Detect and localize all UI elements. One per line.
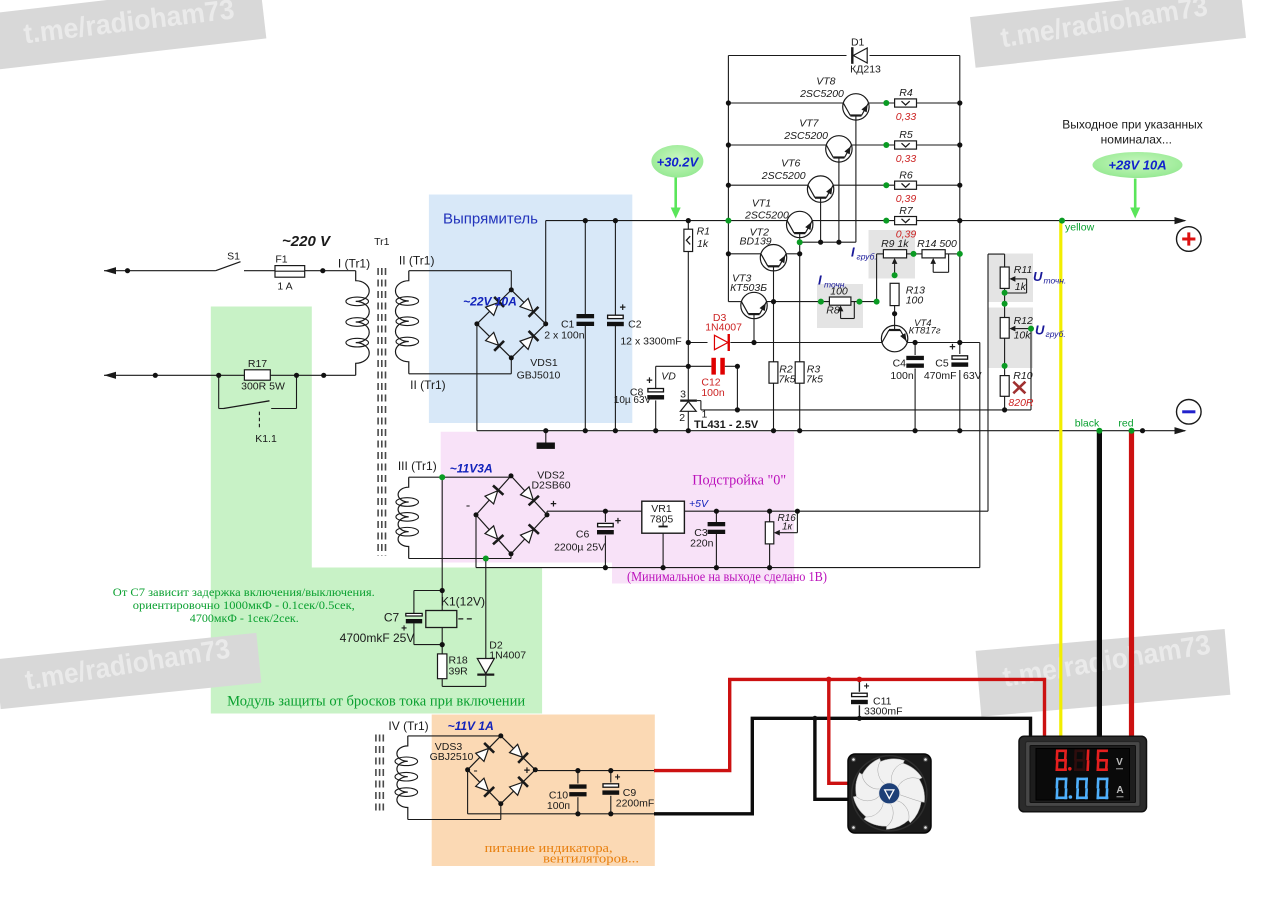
- svg-text:1N4007: 1N4007: [489, 650, 526, 662]
- svg-text:0,39: 0,39: [896, 193, 917, 205]
- region: protection module (green): [211, 307, 542, 714]
- svg-text:300R 5W: 300R 5W: [241, 381, 285, 393]
- svg-text:+: +: [615, 516, 621, 528]
- svg-text:4700mkF 25V: 4700mkF 25V: [340, 631, 415, 645]
- svg-text:(Минимальное на выходе сделано: (Минимальное на выходе сделано 1В): [627, 569, 827, 584]
- wire C12 row: [656, 365, 712, 367]
- svg-text:3300mF: 3300mF: [864, 706, 903, 718]
- svg-text:груб.: груб.: [857, 252, 877, 262]
- svg-text:2 x 100n: 2 x 100n: [544, 330, 584, 342]
- wire VDS3 - drop: [467, 770, 469, 814]
- svg-text:C2: C2: [628, 319, 642, 331]
- terminal minus: [1177, 400, 1202, 425]
- svg-text:VD: VD: [661, 371, 676, 383]
- potentiometer R14 500: [922, 250, 945, 258]
- highlight pad R11: [988, 254, 1033, 303]
- bridge diode upper-left: [485, 297, 504, 316]
- meter digits amps 0.00: [1056, 778, 1068, 781]
- wire D3 cathode to VT4: [730, 342, 882, 344]
- svg-text:II (Tr1): II (Tr1): [399, 254, 435, 268]
- svg-text:Выходное при указанных: Выходное при указанных: [1062, 118, 1203, 132]
- svg-text:+5V: +5V: [689, 498, 709, 510]
- wire +5V rail: [684, 510, 988, 512]
- svg-text:4700мкФ - 1сек/2сек.: 4700мкФ - 1сек/2сек.: [190, 613, 299, 625]
- relay coil K1: [426, 611, 457, 628]
- capacitor C3: [715, 511, 717, 522]
- diode D2 1N4007: [485, 676, 487, 687]
- ground symbol: [545, 431, 547, 443]
- svg-text:3: 3: [680, 389, 686, 401]
- svg-text:VT8: VT8: [816, 76, 835, 88]
- wire R9-R14: [907, 253, 922, 255]
- svg-text:100: 100: [906, 295, 924, 307]
- wire fan red feed: [829, 679, 850, 783]
- arrow +28V: [1134, 179, 1137, 210]
- svg-text:R11: R11: [1014, 264, 1032, 276]
- svg-text:220n: 220n: [690, 538, 714, 550]
- svg-text:100n: 100n: [701, 387, 725, 399]
- svg-text:R10: R10: [1013, 370, 1032, 382]
- bridge diode lower-left: [485, 332, 504, 351]
- wire R8 right to R9 drop: [851, 301, 877, 303]
- resistor R6: [895, 181, 917, 189]
- wire 7805 common rail: [476, 567, 980, 569]
- crossed-out mark on R10: [1013, 382, 1025, 394]
- resistor R18 39R: [438, 654, 447, 679]
- svg-text:GBJ2510: GBJ2510: [430, 751, 474, 763]
- capacitor C2: [614, 221, 616, 315]
- wire VT3 collector: [728, 301, 741, 303]
- capacitor C10: [577, 771, 579, 784]
- highlight pad R9: [869, 230, 916, 279]
- svg-text:R5: R5: [899, 129, 913, 141]
- svg-text:0,33: 0,33: [896, 153, 917, 165]
- svg-text:red: red: [1118, 418, 1133, 430]
- wire right bus: [959, 56, 961, 355]
- transistor VT3 KT503: [741, 292, 767, 318]
- capacitor C9: [610, 771, 612, 783]
- resistor R2: [769, 362, 778, 383]
- svg-text:I: I: [851, 245, 855, 260]
- transistor VT4 KT817: [881, 325, 907, 351]
- svg-text:1к: 1к: [782, 522, 794, 533]
- svg-text:S1: S1: [227, 251, 240, 263]
- wire row R5: [728, 144, 826, 146]
- switch S1: [216, 262, 241, 271]
- svg-text:D1: D1: [851, 37, 865, 49]
- bridge diode upper-right: [519, 298, 538, 317]
- svg-text:+: +: [646, 375, 652, 387]
- wire II top: [409, 270, 512, 272]
- bridge diode lower-left: [475, 777, 494, 796]
- bridge diode lower-right: [520, 524, 539, 543]
- svg-text:VT1: VT1: [752, 197, 771, 209]
- bridge diode lower-right: [519, 331, 538, 350]
- svg-text:КТ503Б: КТ503Б: [730, 282, 767, 294]
- relay contact K1.1: [218, 375, 220, 408]
- region: rectifier (blue): [429, 195, 632, 424]
- resistor R3: [795, 362, 804, 383]
- wire D1 row: [728, 55, 846, 57]
- wire IV top: [408, 735, 501, 737]
- svg-text:~22V 10A: ~22V 10A: [463, 295, 517, 309]
- svg-text:+28V 10A: +28V 10A: [1108, 158, 1166, 173]
- capacitor C12 (red): [711, 358, 716, 375]
- bridge diode upper-left: [484, 485, 503, 504]
- svg-text:~11V 1A: ~11V 1A: [448, 719, 494, 733]
- svg-text:R9 1k: R9 1k: [881, 238, 909, 250]
- potentiometer R11 1k: [1000, 267, 1009, 288]
- svg-text:точн.: точн.: [824, 280, 847, 290]
- svg-text:2SC5200: 2SC5200: [761, 170, 806, 182]
- svg-text:7k5: 7k5: [806, 374, 823, 386]
- svg-text:R6: R6: [899, 169, 913, 181]
- transistor VT2 BD139: [760, 245, 786, 271]
- svg-text:2SC5200: 2SC5200: [799, 88, 844, 100]
- wire VT2 base drop: [773, 266, 775, 362]
- svg-text:63V: 63V: [963, 370, 982, 382]
- wire black supply: [654, 718, 1031, 814]
- bridge diode upper-right: [520, 486, 539, 505]
- potentiometer R12 10k: [1000, 318, 1009, 339]
- svg-text:вентиляторов...: вентиляторов...: [543, 852, 639, 866]
- svg-text:2SC5200: 2SC5200: [783, 130, 828, 142]
- junction dots: [125, 268, 130, 273]
- svg-text:C7: C7: [384, 611, 400, 625]
- svg-text:R1: R1: [697, 226, 710, 238]
- region: zero-adjust (pink): [441, 432, 794, 584]
- wire VDS1 + riser: [545, 221, 547, 324]
- svg-text:~220 V: ~220 V: [282, 233, 332, 250]
- regulator VR1 7805: [642, 501, 685, 533]
- wire VT7 base drop: [838, 158, 840, 243]
- svg-text:A: A: [1116, 785, 1123, 796]
- svg-text:2200µ 25V: 2200µ 25V: [554, 542, 605, 554]
- fuse F1: [275, 270, 305, 272]
- svg-text:black: black: [1075, 418, 1100, 430]
- svg-text:груб.: груб.: [1046, 329, 1066, 339]
- svg-text:10µ 63V: 10µ 63V: [614, 395, 652, 406]
- svg-text:II (Tr1): II (Tr1): [410, 378, 446, 392]
- svg-text:100п: 100п: [547, 800, 570, 812]
- wire red supply: [654, 679, 1045, 770]
- svg-text:От С7 зависит задержка включен: От С7 зависит задержка включения/выключе…: [113, 587, 375, 599]
- svg-text:7805: 7805: [650, 514, 674, 526]
- capacitor C8: [655, 366, 657, 388]
- winding IV: [397, 736, 408, 820]
- svg-text:номиналах...: номиналах...: [1101, 133, 1172, 147]
- svg-text:-: -: [466, 498, 470, 513]
- diode D1 KD213: [852, 47, 867, 64]
- svg-text:10k: 10k: [1014, 330, 1032, 342]
- svg-text:ориентировочно 1000мкФ - 0.1се: ориентировочно 1000мкФ - 0.1сек/0.5сек,: [133, 600, 355, 612]
- wire main +30V rail: [546, 220, 788, 222]
- svg-text:Tr1: Tr1: [374, 236, 390, 248]
- wire VT6 base drop: [820, 198, 822, 243]
- wire row R4: [728, 102, 843, 104]
- wire chain top from +5V riser: [988, 253, 1005, 255]
- TL431 VD symbol: [687, 401, 689, 431]
- svg-text:BD139: BD139: [740, 235, 772, 247]
- transistor VT1 2SC5200: [787, 211, 813, 237]
- wire VDS1 - drop to ground bus: [476, 324, 478, 431]
- svg-text:TL431 - 2.5V: TL431 - 2.5V: [694, 419, 759, 431]
- bridge diode upper-left: [475, 743, 494, 762]
- wire VT2 emitter: [786, 253, 800, 255]
- transistor VT7 2SC5200: [826, 136, 852, 162]
- wire IV bottom: [408, 819, 501, 821]
- wire meter thick red: [1129, 431, 1134, 738]
- wire III bottom: [409, 558, 511, 560]
- potentiometer R8: [829, 297, 851, 305]
- wire row R6: [728, 184, 808, 186]
- svg-text:2: 2: [679, 412, 685, 424]
- wire left bus: [727, 56, 729, 302]
- svg-text:yellow: yellow: [1065, 222, 1095, 234]
- svg-text:R7: R7: [899, 205, 914, 217]
- svg-text:+: +: [619, 302, 625, 314]
- resistor R17: [244, 370, 270, 380]
- wire VT2 collector: [728, 253, 761, 255]
- svg-text:C6: C6: [576, 529, 590, 541]
- svg-text:+: +: [550, 499, 556, 511]
- wire VT1 base drop: [799, 233, 801, 362]
- wire TL431 ref row: [701, 409, 1031, 411]
- svg-text:7k5: 7k5: [779, 374, 796, 386]
- svg-text:2200mF: 2200mF: [616, 798, 655, 810]
- svg-text:820R: 820R: [1008, 397, 1034, 409]
- svg-text:1 A: 1 A: [277, 281, 292, 293]
- svg-text:1N4007: 1N4007: [705, 322, 742, 334]
- wire AC line bottom: [104, 374, 244, 376]
- green junction dots: [725, 218, 731, 224]
- wire AC line top: [104, 270, 216, 272]
- capacitor C6: [604, 511, 606, 522]
- capacitor C11: [858, 679, 860, 691]
- svg-text:C5: C5: [935, 358, 949, 370]
- wire K1 branch: [441, 477, 443, 610]
- diode D3 1N4007: [714, 334, 728, 351]
- wire VDS2 + rail: [546, 511, 548, 515]
- region: indicator supply (orange): [432, 715, 655, 867]
- resistor R4: [895, 99, 917, 107]
- wire meter thick black: [1097, 431, 1102, 738]
- svg-text:+: +: [949, 342, 955, 354]
- arrow +30.2V: [674, 178, 677, 210]
- resistor R5: [895, 141, 917, 149]
- svg-text:I (Tr1): I (Tr1): [338, 257, 370, 271]
- svg-text:КД213: КД213: [850, 64, 881, 76]
- svg-text:2SC5200: 2SC5200: [744, 210, 789, 222]
- panel meter voltmeter/ammeter: [1019, 736, 1147, 812]
- fan (Arctic): [848, 751, 933, 837]
- svg-text:Модуль защиты от бросков тока: Модуль защиты от бросков тока при включе…: [227, 694, 525, 710]
- transistor VT6 2SC5200: [807, 176, 833, 202]
- bridge diode lower-right: [509, 777, 528, 796]
- bridge diode lower-left: [484, 525, 503, 544]
- svg-text:R14 500: R14 500: [917, 238, 957, 250]
- svg-text:VT7: VT7: [799, 118, 819, 130]
- svg-text:+: +: [864, 682, 870, 693]
- winding II: [395, 271, 408, 374]
- wire yellow sense: [1059, 221, 1062, 738]
- bridge rectifier VDS1: [477, 290, 511, 324]
- wire VT4 emitter row: [907, 342, 960, 344]
- svg-text:GBJ5010: GBJ5010: [517, 370, 561, 382]
- bubble +30.2V: [651, 145, 703, 178]
- highlight pad R12: [988, 308, 1033, 369]
- watermark top-right: [970, 0, 1246, 68]
- svg-text:VDS1: VDS1: [530, 357, 558, 369]
- meter digits volts 8.16: [1056, 750, 1067, 753]
- svg-text:12 x 3300mF: 12 x 3300mF: [620, 336, 681, 348]
- svg-text:D2SB60: D2SB60: [531, 480, 570, 492]
- capacitor C1: [584, 221, 586, 316]
- svg-text:+30.2V: +30.2V: [657, 155, 700, 170]
- svg-text:R8: R8: [826, 305, 840, 317]
- winding III: [398, 477, 409, 558]
- svg-text:IV (Tr1): IV (Tr1): [388, 719, 428, 733]
- svg-text:1k: 1k: [697, 238, 709, 250]
- transformer core Tr1: [377, 268, 379, 556]
- wire VDS3 + row: [534, 769, 536, 772]
- wire base bus: [800, 241, 856, 243]
- resistor R10 820R: [1000, 376, 1009, 397]
- svg-text:III (Tr1): III (Tr1): [398, 459, 437, 473]
- bubble +28V 10A: [1093, 152, 1183, 178]
- svg-text:точн.: точн.: [1044, 276, 1067, 286]
- svg-text:R4: R4: [899, 87, 913, 99]
- watermark mid-left: [0, 633, 261, 709]
- wire ref row riser to R12 wiper: [1030, 329, 1032, 410]
- svg-text:470mF: 470mF: [924, 370, 957, 382]
- winding I (primary): [356, 271, 370, 376]
- bridge diode upper-right: [509, 743, 528, 762]
- wire ground bus: [477, 430, 1185, 432]
- bridge rectifier VDS2: [476, 476, 511, 515]
- svg-text:VT6: VT6: [781, 158, 800, 170]
- transformer core IV: [375, 735, 377, 811]
- resistor R13 100: [890, 283, 899, 305]
- svg-text:R12: R12: [1014, 315, 1033, 327]
- svg-text:V: V: [1116, 757, 1123, 768]
- svg-text:Выпрямитель: Выпрямитель: [443, 211, 538, 228]
- svg-text:Подстройка "0": Подстройка "0": [692, 473, 786, 489]
- watermark bottom-right: [976, 629, 1231, 717]
- svg-text:~11V3A: ~11V3A: [450, 462, 493, 476]
- wire VT3 base drop: [753, 314, 755, 342]
- svg-text:100n: 100n: [890, 370, 914, 382]
- svg-text:U: U: [1033, 269, 1043, 284]
- svg-text:K1.1: K1.1: [255, 433, 277, 445]
- wire R1 bottom / VD cathode node: [687, 252, 689, 401]
- terminal plus: [1177, 227, 1202, 252]
- svg-text:I: I: [818, 273, 822, 288]
- svg-text:0,33: 0,33: [896, 111, 917, 123]
- svg-text:R17: R17: [248, 358, 267, 370]
- potentiometer R9 1k: [877, 253, 884, 255]
- wire D3 row: [688, 342, 707, 344]
- highlight pad R8: [817, 284, 863, 328]
- svg-text:1k: 1k: [1015, 281, 1027, 293]
- capacitor C7: [414, 590, 442, 592]
- capacitor C5: [952, 356, 968, 359]
- svg-text:-: -: [473, 763, 477, 778]
- wire VT3 emitter row to R8: [767, 301, 830, 303]
- svg-text:+: +: [524, 765, 530, 777]
- resistor R7: [895, 217, 917, 225]
- svg-text:F1: F1: [275, 254, 287, 266]
- svg-text:U: U: [1035, 323, 1045, 338]
- bridge rectifier VDS3: [468, 736, 501, 770]
- wire VT8 base drop: [855, 116, 857, 243]
- wire fan black feed: [815, 718, 850, 799]
- resistor R1: [687, 221, 689, 230]
- wire VDS2 - drop: [475, 515, 477, 568]
- capacitor C4: [914, 343, 916, 356]
- svg-text:КТ817г: КТ817г: [909, 326, 941, 337]
- svg-text:+: +: [615, 773, 621, 784]
- svg-text:K1(12V): K1(12V): [441, 595, 485, 609]
- watermark top-left: [0, 0, 266, 70]
- wire II bottom: [409, 373, 512, 375]
- svg-text:C4: C4: [893, 358, 907, 370]
- wire III top: [409, 476, 511, 478]
- potentiometer R16 1k: [769, 511, 771, 522]
- svg-text:39R: 39R: [449, 666, 469, 678]
- transistor VT8 2SC5200: [843, 94, 869, 120]
